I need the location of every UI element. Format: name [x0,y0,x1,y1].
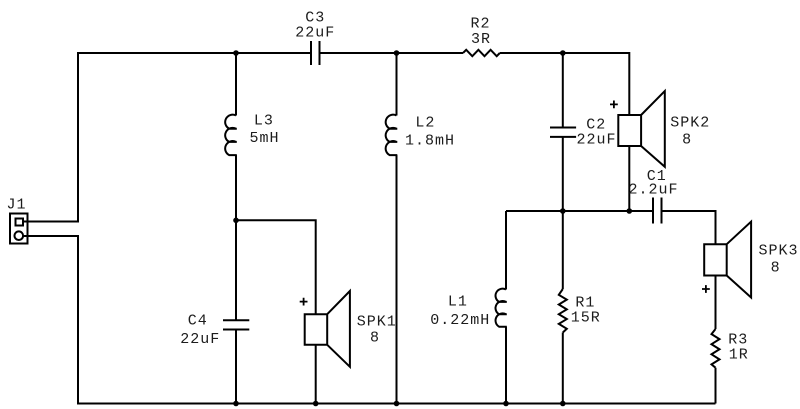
inductor L3 [225,115,237,155]
wire L2 branch top [396,53,398,116]
resistor R2 [463,50,500,56]
svg-text:22uF: 22uF [180,331,220,348]
plus SPK1 [300,298,308,306]
node dot top rail at C2 [560,50,566,56]
svg-text:5mH: 5mH [249,130,279,147]
svg-text:3R: 3R [471,31,491,48]
svg-text:22uF: 22uF [295,25,335,42]
svg-text:J1: J1 [6,197,26,214]
node dot top rail at L2 [394,50,400,56]
resistor R1 [559,289,567,333]
node dot bottom rail at C4 [233,401,239,407]
plus SPK2 [610,101,618,109]
capacitor C1 [653,198,662,224]
wire node to C4 [235,220,237,320]
wire L1 to bottom rail [505,327,507,404]
node dot top rail at L3 [233,50,239,56]
svg-text:SPK1: SPK1 [357,314,397,331]
wire C2 branch top [562,53,564,128]
speaker SPK1 [305,291,350,367]
svg-text:L3: L3 [254,113,274,130]
node dot bottom rail at R1 [560,401,566,407]
svg-text:1R: 1R [729,347,749,364]
wire mid rail left (L1 to C1) [506,210,653,212]
wire C4 to bottom rail [235,330,237,404]
inductor L1 [505,211,507,290]
wire bottom rail [23,236,716,404]
svg-text:8: 8 [682,131,692,148]
wire top rail right (R2 to SPK2 drop) [500,53,630,115]
svg-text:C4: C4 [188,312,208,329]
wire R3 to bottom rail [715,368,717,404]
svg-text:8: 8 [771,259,781,276]
svg-text:L2: L2 [415,115,435,132]
svg-text:22uF: 22uF [576,132,616,149]
wire SPK1 to bottom rail [315,345,317,404]
connector J1 [10,214,28,244]
resistor R3 [712,329,720,368]
capacitor C3 [311,41,320,65]
wire SPK3 to R3 [715,276,717,330]
svg-text:SPK3: SPK3 [758,242,798,259]
svg-text:2.2uF: 2.2uF [628,182,678,199]
wire L3 to node [235,155,237,220]
wire node to SPK1 [236,220,316,314]
wire top rail middle (C3 to R2) [320,52,464,54]
svg-text:L1: L1 [448,293,468,310]
node dot bottom rail at L2 [394,401,400,407]
wire top rail left (J1 pin1 to C3) [23,53,312,222]
node dot bottom rail at SPK1 [313,401,319,407]
svg-text:8: 8 [370,329,380,346]
plus SPK3 [702,285,710,293]
wire C2 to mid rail [562,137,564,289]
svg-text:15R: 15R [571,309,601,326]
node dot L3/C4/SPK1 [233,218,239,224]
node dot bottom rail at L1 [503,401,509,407]
wire mid rail right (C1 to SPK3) [662,211,716,244]
svg-text:1.8mH: 1.8mH [405,133,455,150]
inductor L2 [386,115,398,155]
wire L2 to bottom rail [396,155,398,403]
speaker SPK2 [618,91,665,167]
speaker SPK3 [704,222,751,298]
wire L3 branch top [235,53,237,116]
capacitor C4 [223,320,249,329]
capacitor C2 [550,128,576,137]
node dot mid rail at SPK2 [627,208,633,214]
node dot mid rail at C2/R1 [560,208,566,214]
svg-text:0.22mH: 0.22mH [430,312,490,329]
svg-text:SPK2: SPK2 [670,114,710,131]
wire SPK2 to mid rail [628,146,630,211]
wire R1 to bottom rail [562,333,564,404]
